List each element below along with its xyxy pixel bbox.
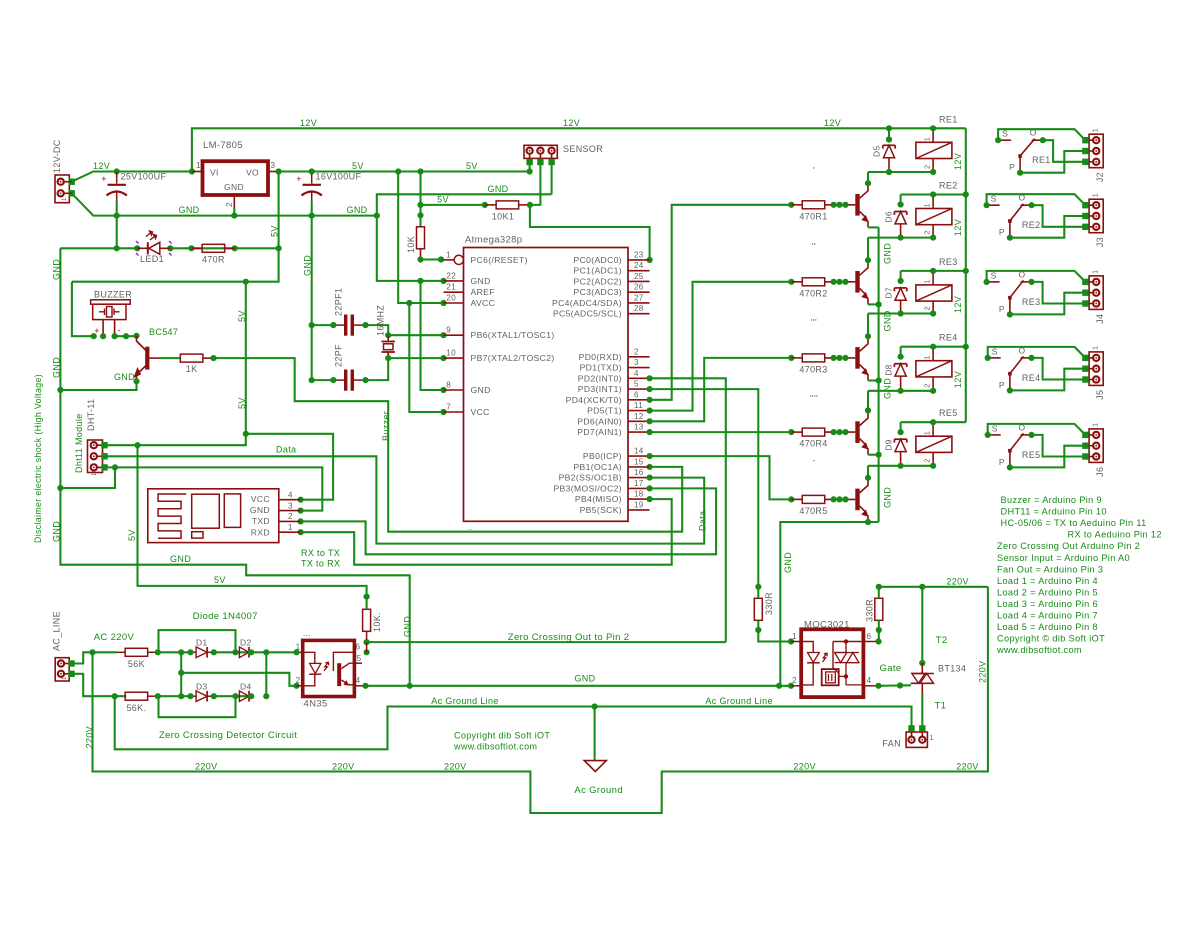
svg-text:1: 1 <box>62 676 68 680</box>
svg-text:1: 1 <box>1093 128 1100 132</box>
svg-text:220V: 220V <box>85 726 95 748</box>
wire GND drop to LED row <box>116 216 118 249</box>
wire Q3 emitter to GND column <box>868 379 879 381</box>
svg-text:10K1: 10K1 <box>492 212 514 222</box>
svg-text:RE1: RE1 <box>1032 155 1051 165</box>
svg-text:17: 17 <box>634 479 644 488</box>
wire coil bottom row RE4 <box>868 390 933 392</box>
svg-text:PD1(TXD): PD1(TXD) <box>580 363 622 373</box>
svg-text:1: 1 <box>923 355 932 360</box>
svg-text:GND: GND <box>783 552 793 573</box>
wire bridge bottom row <box>158 695 191 697</box>
svg-text:330R: 330R <box>764 592 774 615</box>
wire triac T1 down to FAN <box>921 694 923 728</box>
connector J5 <box>1082 346 1105 400</box>
svg-text:2: 2 <box>923 458 932 463</box>
IC U1 pin 23 PC0(ADC0) <box>573 250 649 265</box>
LED LED1 <box>136 231 172 264</box>
wire O to J2 pin3 <box>1043 140 1086 162</box>
svg-text:J2: J2 <box>1095 172 1105 182</box>
wire buzzer minus to collector <box>115 335 137 337</box>
wire Q4 emitter to GND column <box>868 454 879 456</box>
wire GND from connector to rail <box>72 193 377 215</box>
svg-text:PC4(ADC4/SDA): PC4(ADC4/SDA) <box>552 298 622 308</box>
wire Q1 collector to coil row <box>867 172 869 183</box>
svg-text:1: 1 <box>923 431 932 436</box>
resistor R3 1K <box>160 354 214 374</box>
wire GND drop to pin 8 <box>421 281 444 390</box>
connector J2 <box>1082 128 1105 182</box>
svg-text:HC-05/06 = TX to Aeduino Pin 1: HC-05/06 = TX to Aeduino Pin 11 <box>1001 518 1147 528</box>
svg-text:PB3(MOSI/OC2): PB3(MOSI/OC2) <box>553 483 622 493</box>
svg-text:GND: GND <box>52 357 62 378</box>
svg-text:SENSOR: SENSOR <box>563 144 603 154</box>
IC U1 pin 26 PC3(ADC3) <box>573 283 649 298</box>
svg-text:3: 3 <box>634 358 639 367</box>
wire 5V drop x278 <box>72 172 279 282</box>
svg-text:56K: 56K <box>128 659 145 669</box>
wire 330R to MOC pin1 <box>758 630 791 642</box>
svg-text:12V: 12V <box>953 371 963 388</box>
wire Q1 emitter to GND column <box>868 226 879 228</box>
svg-text:2: 2 <box>634 347 639 356</box>
resistor 470R1 <box>788 201 855 222</box>
wire Q3 collector to coil row <box>867 314 869 337</box>
svg-text:6: 6 <box>867 632 872 641</box>
wire emitter to GND <box>60 381 136 390</box>
svg-text:1: 1 <box>923 137 932 142</box>
svg-text:19: 19 <box>634 500 644 509</box>
wire XTAL2 to pin 10 <box>388 357 443 359</box>
relay RE1 coil <box>916 114 958 175</box>
wire 12V rail RE2 <box>901 193 966 195</box>
connector AC_LINE <box>52 611 75 681</box>
svg-text:Atmega328p: Atmega328p <box>465 235 522 246</box>
wire left GND vertical <box>60 248 409 685</box>
svg-text:470R3: 470R3 <box>799 364 827 374</box>
transistor Q4 driver <box>858 411 869 455</box>
svg-text:Dht11 Module: Dht11 Module <box>74 413 84 473</box>
wire 5V distribution vertical x246 <box>105 282 246 446</box>
resistor 470R3 <box>788 354 855 375</box>
connector J4 <box>1082 270 1105 324</box>
svg-text:D5: D5 <box>872 145 882 157</box>
wire zero crossing out <box>367 641 726 643</box>
svg-text:Data: Data <box>276 445 296 455</box>
svg-text:GND: GND <box>883 310 893 331</box>
svg-text:Buzzer: Buzzer <box>381 411 391 441</box>
svg-text:PD3(INT1): PD3(INT1) <box>578 384 622 394</box>
wire pin4 INT0 to zero-cross vertical <box>650 378 726 642</box>
relay switch RE5 contacts <box>985 422 1041 470</box>
wire 5V rail from regulator <box>279 170 530 172</box>
wire 12V rail RE3 <box>901 270 966 272</box>
svg-text:www.dibsoftiot.com: www.dibsoftiot.com <box>453 742 537 752</box>
svg-text:220V: 220V <box>332 762 354 772</box>
svg-text:Zero Crossing Out Arduino Pin: Zero Crossing Out Arduino Pin 2 <box>997 541 1140 551</box>
wire O to J6 pin3 <box>1032 435 1086 457</box>
svg-text:Ac Ground Line: Ac Ground Line <box>431 696 498 706</box>
wire P to J6 pin2 <box>1010 446 1086 468</box>
svg-text:3: 3 <box>288 502 293 511</box>
svg-text:PD2(INT0): PD2(INT0) <box>578 373 622 383</box>
resistor 470R5 <box>788 495 855 516</box>
svg-text:GND: GND <box>574 674 595 684</box>
wire 5V spur to 10K1 <box>421 204 485 206</box>
wire 12V riser to top rail <box>192 128 966 171</box>
svg-text:28: 28 <box>634 304 644 313</box>
wire coil bottom row RE3 <box>868 312 933 314</box>
svg-text:GND: GND <box>883 487 893 508</box>
svg-text:RX to Aeduino Pin 12: RX to Aeduino Pin 12 <box>1068 530 1162 540</box>
svg-text:RXD: RXD <box>251 527 270 537</box>
svg-text:DHT11 = Arduino Pin 10: DHT11 = Arduino Pin 10 <box>1001 507 1107 517</box>
svg-text:1: 1 <box>792 632 797 641</box>
connector J3 <box>1082 193 1105 247</box>
svg-text:RE3: RE3 <box>1022 297 1041 307</box>
IC U1 pin 17 PB3(MOSI/OC2) <box>553 479 649 494</box>
svg-text:5: 5 <box>634 380 639 389</box>
wire O to J4 pin3 <box>1032 282 1086 304</box>
wire 220V bottom rail <box>93 587 988 813</box>
svg-text:470R2: 470R2 <box>799 288 827 298</box>
connector FAN <box>882 725 933 748</box>
wire LED row <box>60 247 137 249</box>
svg-text:PC5(ADC5/SCL): PC5(ADC5/SCL) <box>553 309 622 319</box>
svg-text:LM-7805: LM-7805 <box>203 140 243 151</box>
svg-text:PD7(AIN1): PD7(AIN1) <box>577 427 622 437</box>
IC U1 pin 24 PC1(ADC1) <box>573 261 649 276</box>
svg-text:Load 4 = Arduino Pin 7: Load 4 = Arduino Pin 7 <box>997 611 1098 621</box>
IC U1 pin 27 PC4(ADC4/SDA) <box>552 293 650 308</box>
svg-text:VO: VO <box>246 168 259 178</box>
wire 12V from connector to rail <box>72 172 192 182</box>
wire AVCC riser 5V <box>398 172 443 304</box>
relay switch RE4 contacts <box>985 345 1041 393</box>
svg-text:GND: GND <box>487 184 508 194</box>
svg-text:GND: GND <box>403 616 413 637</box>
resistor R9 330R. <box>865 584 883 642</box>
svg-text:GND: GND <box>471 385 491 395</box>
svg-text:PB5(SCK): PB5(SCK) <box>580 505 622 515</box>
svg-text:1: 1 <box>1093 270 1100 274</box>
svg-text:DHT-11: DHT-11 <box>86 399 96 431</box>
IC U1 pin 5 PD3(INT1) <box>578 380 650 395</box>
wire pin14 load5 <box>650 456 792 499</box>
svg-text:J3: J3 <box>1095 237 1105 247</box>
wire fanout to 330R <box>755 584 761 590</box>
svg-text:GND: GND <box>303 255 313 276</box>
svg-text:AC_LINE: AC_LINE <box>52 611 62 651</box>
relay RE2 coil <box>916 181 958 241</box>
svg-text:220V: 220V <box>444 762 466 772</box>
svg-text:2: 2 <box>923 164 932 169</box>
wire coil bottom row RE5 <box>868 465 933 467</box>
svg-text:2: 2 <box>288 512 293 521</box>
svg-text:RE5: RE5 <box>939 408 958 418</box>
svg-text:5V: 5V <box>237 310 247 322</box>
svg-text:GND: GND <box>471 276 491 286</box>
svg-text:Buzzer = Arduino Pin 9: Buzzer = Arduino Pin 9 <box>1001 495 1102 505</box>
wire pin13 load4 <box>650 431 792 433</box>
svg-text:VCC: VCC <box>471 407 490 417</box>
IC U1 pin 9 PB6(XTAL1/TOSC1) <box>444 326 555 341</box>
resistor R6 56K. <box>125 692 161 713</box>
wire 16V cap GND vertical down <box>311 216 313 381</box>
diode D4 <box>232 682 254 702</box>
svg-text:PB7(XTAL2/TOSC2): PB7(XTAL2/TOSC2) <box>471 353 555 363</box>
wire buzzer control net to pin15 <box>214 358 683 532</box>
svg-text:1: 1 <box>62 197 68 201</box>
svg-text:220V: 220V <box>978 661 988 683</box>
wire P to J2 pin2 <box>1020 151 1085 173</box>
wire 5V drop to zerocross area <box>138 445 367 596</box>
svg-text:1: 1 <box>930 735 934 742</box>
svg-text:BC547: BC547 <box>149 327 178 337</box>
svg-text:4: 4 <box>634 369 639 378</box>
svg-text:J4: J4 <box>1095 314 1105 324</box>
svg-text:1: 1 <box>1093 346 1100 350</box>
svg-text:RE1: RE1 <box>939 114 958 124</box>
svg-text:Data: Data <box>698 511 708 531</box>
wire Ac ground return <box>115 696 912 749</box>
svg-text:RX to TX: RX to TX <box>301 548 340 558</box>
svg-text:5V: 5V <box>437 195 449 205</box>
svg-text:FAN: FAN <box>882 739 901 749</box>
svg-text:D9: D9 <box>883 439 893 451</box>
svg-text:D2: D2 <box>240 638 252 648</box>
svg-text:10K.: 10K. <box>372 612 382 632</box>
svg-text:27: 27 <box>634 293 644 302</box>
svg-text:6: 6 <box>356 643 361 652</box>
wire S to J2 pin1 <box>998 129 1085 140</box>
svg-text:GND: GND <box>883 243 893 264</box>
capacitor C2 16V100UF <box>296 172 361 216</box>
svg-text:2: 2 <box>923 383 932 388</box>
svg-text:D7: D7 <box>883 287 893 299</box>
svg-text:PB0(ICP): PB0(ICP) <box>583 451 622 461</box>
svg-text:1: 1 <box>92 472 98 476</box>
svg-text:12V: 12V <box>300 118 317 128</box>
svg-text:22PF1: 22PF1 <box>334 288 344 316</box>
svg-text:..: .. <box>468 523 473 532</box>
svg-text:13: 13 <box>634 423 644 432</box>
relay switch RE1 contacts <box>995 128 1051 176</box>
svg-text:12V: 12V <box>824 118 841 128</box>
connector J6 <box>1082 423 1105 477</box>
svg-text:5V: 5V <box>127 529 137 541</box>
regulator IC2 LM-7805 <box>192 140 279 216</box>
wire 5V branch to HC05 VCC <box>246 434 333 500</box>
IC U1 pin 1 PC6(/RESET) <box>444 250 528 265</box>
svg-text:PB6(XTAL1/TOSC1): PB6(XTAL1/TOSC1) <box>471 330 555 340</box>
svg-text:P: P <box>999 304 1005 314</box>
wire pin6 load1 <box>650 205 792 400</box>
IC U1 pin 6 PD4(XCK/T0) <box>566 390 650 405</box>
svg-text:Diode 1N4007: Diode 1N4007 <box>193 611 258 622</box>
svg-text:TX to RX: TX to RX <box>301 559 340 569</box>
svg-text:2: 2 <box>296 676 301 685</box>
label pin assignment text block <box>996 495 1162 655</box>
svg-text:2: 2 <box>923 306 932 311</box>
wire O to J5 pin3 <box>1032 358 1086 380</box>
wire GND drop to pin 22 <box>377 216 444 281</box>
svg-text:220V: 220V <box>793 762 815 772</box>
wire T2 drop to triac <box>921 587 923 663</box>
svg-text:4: 4 <box>867 676 872 685</box>
IC U1 pin 7 VCC <box>444 403 490 418</box>
svg-text:PC1(ADC1): PC1(ADC1) <box>573 266 622 276</box>
svg-text:PC0(ADC0): PC0(ADC0) <box>573 255 622 265</box>
svg-text:21: 21 <box>446 283 456 292</box>
diode D7 flyback <box>883 271 907 317</box>
svg-text:AREF: AREF <box>471 287 495 297</box>
wire P to J3 pin2 <box>1010 216 1086 238</box>
IC U1 pin 3 PD1(TXD) <box>580 358 650 373</box>
svg-text:2: 2 <box>792 676 797 685</box>
connector SENSOR <box>523 144 604 165</box>
wire S to J6 pin1 <box>988 424 1086 435</box>
svg-text:GND: GND <box>114 372 135 382</box>
svg-text:-: - <box>117 325 120 335</box>
triac T BT134 <box>911 663 967 696</box>
IC U1 pin 20 AVCC <box>444 294 496 309</box>
wire GND column relays <box>878 227 880 522</box>
wire S to J3 pin1 <box>987 194 1086 205</box>
svg-text:6: 6 <box>634 390 639 399</box>
svg-text:LED1: LED1 <box>140 254 164 264</box>
svg-text:GND: GND <box>883 378 893 399</box>
wire bridge top row <box>158 651 191 653</box>
wire P to J5 pin2 <box>1010 369 1086 391</box>
wire 12V rail RE5 <box>901 421 966 423</box>
wire VCC drop pin 7 <box>409 303 443 412</box>
svg-text:470R4: 470R4 <box>799 439 827 449</box>
svg-text:22: 22 <box>446 271 456 280</box>
svg-text:GND: GND <box>170 554 191 564</box>
capacitor C1 25V100UF <box>101 172 166 216</box>
transistor Q2 driver <box>858 260 869 304</box>
wire pin18 RXD <box>301 499 672 565</box>
node 12V rail dots <box>114 168 120 174</box>
crystal Q1 16MHZ <box>376 305 395 359</box>
wire bridge right vertical <box>265 652 267 696</box>
svg-text:3: 3 <box>271 161 276 170</box>
svg-text:12V-DC: 12V-DC <box>52 139 62 173</box>
svg-text:PD4(XCK/T0): PD4(XCK/T0) <box>566 395 622 405</box>
IC U1 pin 4 PD2(INT0) <box>578 369 650 384</box>
svg-text:Load 3 = Arduino Pin 6: Load 3 = Arduino Pin 6 <box>997 599 1098 609</box>
svg-text:470R: 470R <box>202 255 225 265</box>
svg-text:+: + <box>296 174 302 184</box>
transistor Q5 driver <box>858 478 869 522</box>
svg-text:5V: 5V <box>270 225 280 237</box>
svg-text:220V: 220V <box>195 762 217 772</box>
svg-text:16: 16 <box>634 468 644 477</box>
svg-text:12: 12 <box>634 412 644 421</box>
svg-text:10: 10 <box>446 349 456 358</box>
svg-text:J5: J5 <box>1095 390 1105 400</box>
svg-text:4N35: 4N35 <box>304 699 328 710</box>
wire pin16 data <box>105 456 705 543</box>
wire AC hot to 56K <box>72 652 118 663</box>
svg-text:470R5: 470R5 <box>799 506 827 516</box>
svg-text:16MHZ: 16MHZ <box>376 305 386 336</box>
wire Q4 collector to coil row <box>867 391 869 411</box>
svg-text:25V100UF: 25V100UF <box>121 172 167 182</box>
svg-text:5V: 5V <box>466 161 478 171</box>
svg-text:GND: GND <box>346 205 367 215</box>
svg-text:GND: GND <box>224 182 244 192</box>
svg-text:Ac Ground Line: Ac Ground Line <box>705 696 772 706</box>
svg-text:PB1(OC1A): PB1(OC1A) <box>573 462 622 472</box>
wire pin5 INT1 fan out <box>650 389 759 587</box>
IC U1 pin 11 PD5(T1) <box>587 401 650 416</box>
IC U1 pin 19 PB5(SCK) <box>580 500 650 515</box>
svg-text:25: 25 <box>634 272 644 281</box>
svg-text:D3: D3 <box>196 682 208 692</box>
wire reset pullup to pin 1 <box>421 258 444 260</box>
svg-text:VI: VI <box>210 168 219 178</box>
relay RE5 coil <box>916 408 958 469</box>
svg-text:GND: GND <box>178 205 199 215</box>
svg-text:RE3: RE3 <box>939 257 958 267</box>
svg-text:D4: D4 <box>240 682 252 692</box>
svg-text:PB4(MISO): PB4(MISO) <box>575 494 622 504</box>
wire GND riser to sensor <box>377 194 552 215</box>
connector DHT-11 <box>74 399 108 476</box>
svg-text:T2: T2 <box>936 635 948 646</box>
svg-text:14: 14 <box>634 447 644 456</box>
transistor Q3 driver <box>858 336 869 380</box>
diode D1 <box>187 638 217 658</box>
node GND rail dots <box>114 213 120 219</box>
svg-text:26: 26 <box>634 283 644 292</box>
svg-text:Zero Crossing Detector Circuit: Zero Crossing Detector Circuit <box>159 730 297 741</box>
svg-text:Load 2 = Arduino Pin 5: Load 2 = Arduino Pin 5 <box>997 587 1098 597</box>
svg-text:56K.: 56K. <box>126 703 146 713</box>
diode D8 flyback <box>883 347 907 394</box>
svg-text:330R.: 330R. <box>865 596 875 622</box>
svg-text:Disclaimer electric shock (Hig: Disclaimer electric shock (High Voltage) <box>33 374 43 543</box>
diode D5 flyback <box>872 125 896 175</box>
wire XTAL1 to pin 9 <box>388 334 443 336</box>
svg-text:TXD: TXD <box>252 516 270 526</box>
svg-text:PB2(SS/OC1B): PB2(SS/OC1B) <box>559 473 622 483</box>
svg-text:''': ''' <box>811 318 817 328</box>
svg-text:-: - <box>812 456 815 466</box>
svg-text:...: ... <box>303 629 311 638</box>
wire coil bottom row RE2 <box>868 237 933 239</box>
svg-text:D1: D1 <box>196 638 208 648</box>
svg-text:P: P <box>1009 162 1015 172</box>
svg-text:12V: 12V <box>953 219 963 236</box>
svg-text:Gate: Gate <box>880 663 902 674</box>
svg-text:RE4: RE4 <box>1022 373 1041 383</box>
wire S to J4 pin1 <box>987 271 1086 282</box>
relay switch RE2 contacts <box>984 193 1041 241</box>
svg-text:AC 220V: AC 220V <box>94 632 135 643</box>
svg-text:P: P <box>999 457 1005 467</box>
resistor R4 10K1 <box>482 201 533 222</box>
svg-text:T1: T1 <box>935 701 947 712</box>
svg-text:Copyright © dib Soft iOT: Copyright © dib Soft iOT <box>997 634 1105 644</box>
svg-text:5V: 5V <box>352 161 364 171</box>
capacitor C3 22PF1 <box>312 288 389 336</box>
svg-text:24: 24 <box>634 261 644 270</box>
svg-text:Fan Out = Arduino Pin 3: Fan Out = Arduino Pin 3 <box>997 564 1103 574</box>
wire Q5 collector to coil row <box>867 466 869 478</box>
